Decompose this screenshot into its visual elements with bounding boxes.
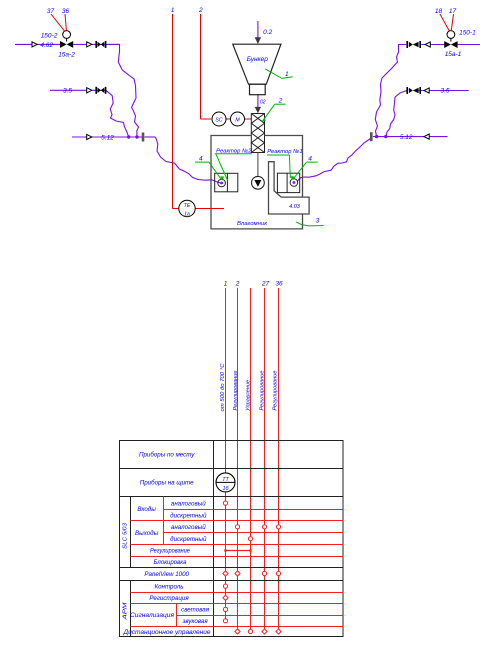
svg-text:1: 1 xyxy=(171,7,175,14)
svg-text:5.12: 5.12 xyxy=(400,134,413,141)
svg-text:ТЕ: ТЕ xyxy=(184,203,191,209)
svg-text:М: М xyxy=(235,117,240,123)
svg-text:15а-1: 15а-1 xyxy=(445,51,462,58)
svg-text:1: 1 xyxy=(224,281,228,288)
svg-text:3.5: 3.5 xyxy=(63,87,72,94)
svg-text:150-2: 150-2 xyxy=(41,32,58,39)
svg-text:Регулирование: Регулирование xyxy=(259,371,265,411)
svg-text:ТТ: ТТ xyxy=(222,477,229,483)
svg-text:Регистрация: Регистрация xyxy=(149,595,189,602)
svg-text:150-1: 150-1 xyxy=(459,30,476,37)
svg-text:18: 18 xyxy=(435,8,443,15)
svg-text:SC: SC xyxy=(215,117,222,123)
svg-text:Сигнализация: Сигнализация xyxy=(130,612,175,619)
svg-text:Регулирование: Регулирование xyxy=(150,548,190,555)
svg-text:Выходы: Выходы xyxy=(135,530,159,537)
svg-text:АРМ: АРМ xyxy=(122,602,128,621)
svg-text:Дистанционное управление: Дистанционное управление xyxy=(122,629,211,636)
svg-text:4.62: 4.62 xyxy=(40,42,53,49)
svg-text:Реактор №2: Реактор №2 xyxy=(216,148,252,154)
svg-text:дискретный: дискретный xyxy=(170,536,207,543)
svg-text:аналоговый: аналоговый xyxy=(171,524,206,531)
svg-text:звуковая: звуковая xyxy=(181,618,208,625)
svg-text:Входы: Входы xyxy=(137,506,156,513)
svg-text:2: 2 xyxy=(198,7,203,14)
svg-text:1а: 1а xyxy=(184,211,190,217)
svg-text:световая: световая xyxy=(181,607,210,614)
svg-text:36: 36 xyxy=(275,281,283,288)
svg-text:Блокировка: Блокировка xyxy=(154,559,188,566)
svg-text:1: 1 xyxy=(285,71,289,78)
svg-text:2: 2 xyxy=(278,98,283,105)
svg-text:Приборы на щите: Приборы на щите xyxy=(140,480,194,487)
svg-text:Регулирование: Регулирование xyxy=(273,371,279,411)
svg-text:Бункер: Бункер xyxy=(247,56,269,63)
svg-text:Влагомник: Влагомник xyxy=(237,221,267,227)
svg-text:3.5: 3.5 xyxy=(440,88,449,95)
svg-text:дискретный: дискретный xyxy=(170,512,207,519)
svg-text:Приборы по месту: Приборы по месту xyxy=(139,452,195,459)
svg-text:PanelView 1000: PanelView 1000 xyxy=(144,571,189,578)
svg-text:4.03: 4.03 xyxy=(289,204,301,210)
svg-text:1б: 1б xyxy=(222,486,229,492)
svg-text:17: 17 xyxy=(449,8,457,15)
svg-text:Контроль: Контроль xyxy=(154,583,183,590)
svg-text:2: 2 xyxy=(235,281,240,288)
svg-text:5.12: 5.12 xyxy=(101,134,114,141)
svg-text:Управление: Управление xyxy=(246,380,252,412)
svg-text:4: 4 xyxy=(199,155,203,162)
svg-text:4: 4 xyxy=(308,155,312,162)
svg-text:27: 27 xyxy=(261,281,270,288)
svg-text:02: 02 xyxy=(260,99,266,105)
svg-text:SLC 5/03: SLC 5/03 xyxy=(122,522,128,549)
svg-text:аналоговый: аналоговый xyxy=(171,500,206,507)
svg-text:15а-2: 15а-2 xyxy=(58,51,75,58)
svg-text:Регулирование: Регулирование xyxy=(233,371,239,411)
svg-text:36: 36 xyxy=(62,8,70,15)
svg-text:37: 37 xyxy=(47,8,55,15)
svg-text:0.2: 0.2 xyxy=(263,29,272,36)
svg-text:3: 3 xyxy=(316,218,320,225)
svg-text:Реактор №1: Реактор №1 xyxy=(267,149,302,155)
svg-text:от 500 до 700 °С: от 500 до 700 °С xyxy=(220,362,226,411)
